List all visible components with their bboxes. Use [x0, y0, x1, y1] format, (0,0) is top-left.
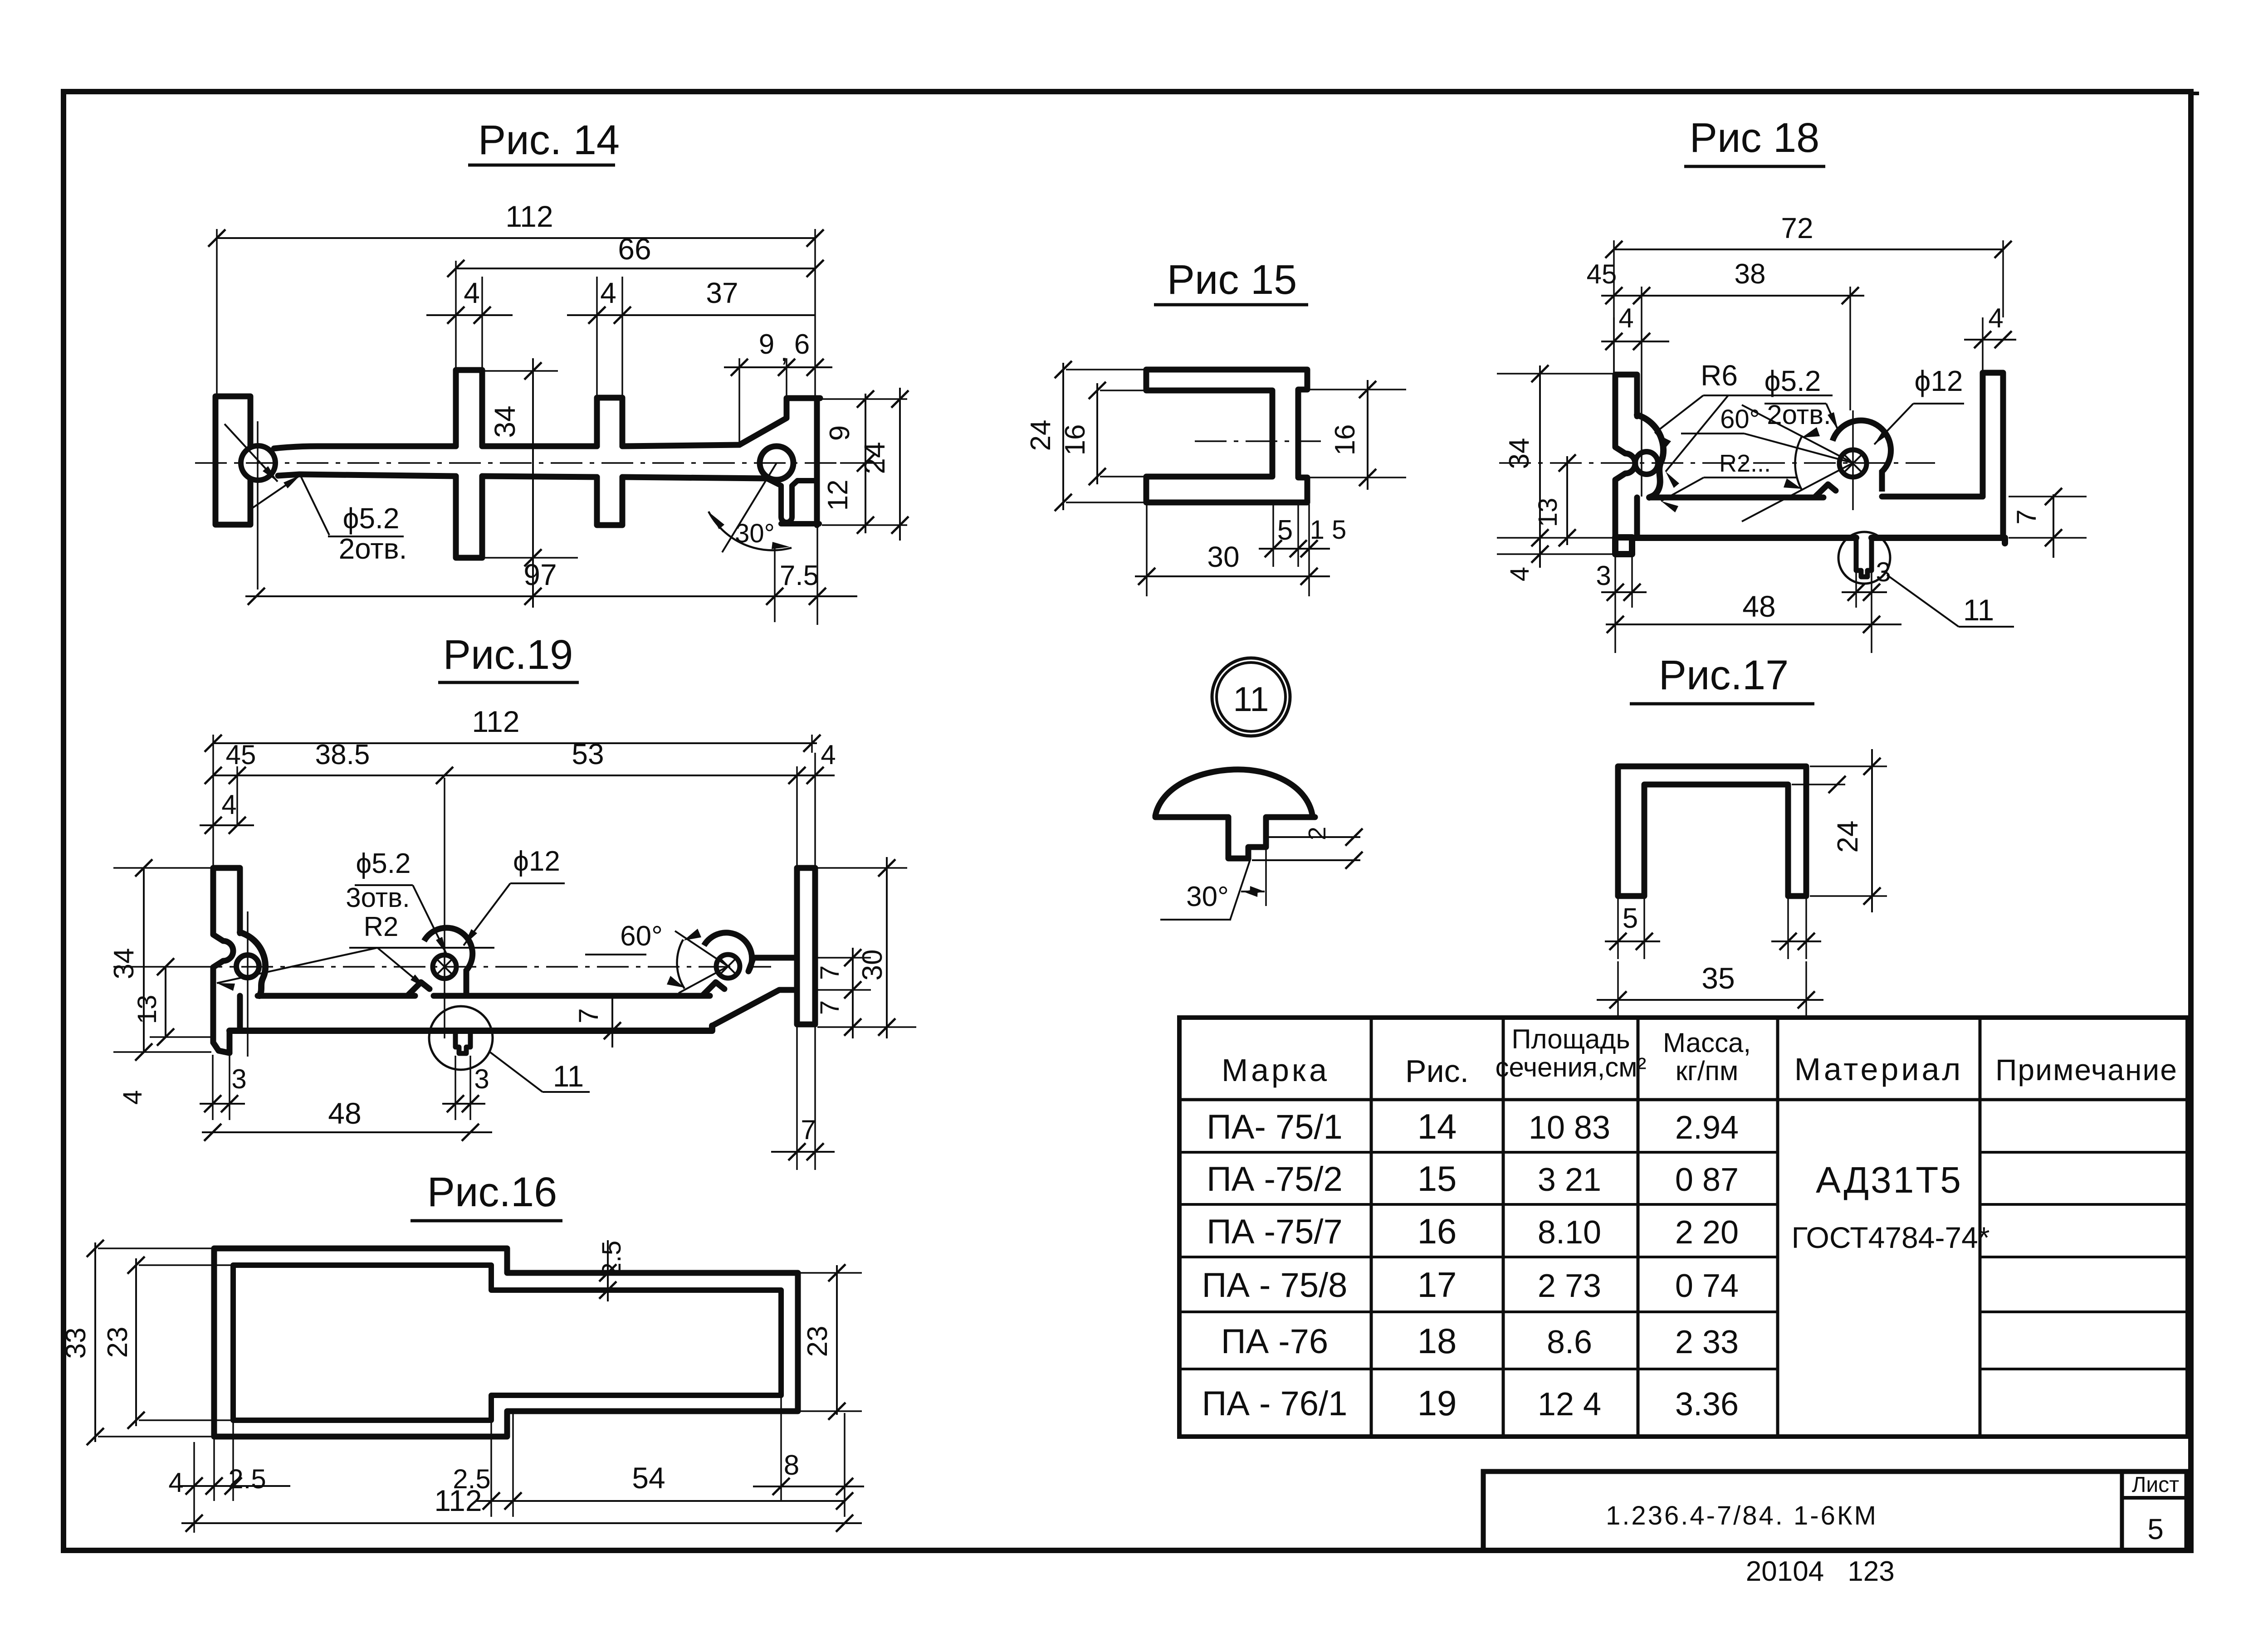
svg-text:54: 54 — [632, 1461, 665, 1495]
Рис.14 dim 34 — [480, 358, 578, 608]
Рис.18 label φ5.2 2отв — [1765, 365, 1838, 430]
Рис.18 label 11 leader — [1887, 575, 2014, 627]
svg-text:38.5: 38.5 — [315, 739, 370, 770]
svg-text:5: 5 — [1623, 903, 1638, 934]
Рис.14 fin 2 — [597, 398, 622, 525]
Рис.19 label φ12 — [464, 846, 565, 945]
Рис.18 circle cross — [1843, 453, 1863, 474]
svg-text:38: 38 — [1735, 258, 1766, 290]
Рис.14 dim 9 and 12 right — [822, 390, 907, 534]
svg-text:23: 23 — [102, 1327, 133, 1358]
svg-text:ϕ5.2: ϕ5.2 — [356, 848, 411, 879]
Рис.18 dim 48 — [1606, 590, 1901, 653]
svg-text:20104: 20104 — [1746, 1556, 1824, 1587]
svg-text:3: 3 — [1876, 557, 1891, 587]
Рис.18 label R2 — [1661, 450, 1796, 512]
Рис.18 centerline horizontal — [1499, 462, 1935, 464]
title Рис.17 — [1630, 652, 1814, 704]
Рис.17 dim 24 — [1792, 749, 1887, 912]
svg-text:3: 3 — [231, 1064, 246, 1094]
Рис.18 hook R6 — [1637, 415, 1663, 497]
Рис.17 profile U channel — [1618, 766, 1806, 896]
svg-text:7: 7 — [815, 1000, 845, 1015]
Рис.16 dim 4 and 2.5 bottom left — [168, 1422, 290, 1533]
svg-text:ГОСТ4784-74*: ГОСТ4784-74* — [1791, 1221, 1989, 1254]
svg-text:13: 13 — [132, 995, 162, 1024]
svg-text:13: 13 — [1533, 498, 1563, 527]
svg-text:10 83: 10 83 — [1529, 1110, 1610, 1146]
svg-text:2: 2 — [1304, 827, 1331, 840]
detail 11 mushroom stem — [1228, 817, 1266, 858]
Рис.14 dim 112 — [208, 200, 824, 397]
Рис.14 dim 24 right — [858, 388, 909, 541]
svg-text:35: 35 — [1701, 961, 1735, 995]
Рис.17 dim 5 — [1605, 898, 1660, 959]
svg-text:R2: R2 — [364, 911, 399, 942]
Рис.14 fin 1 — [456, 370, 482, 558]
stamp 20104 123 — [1746, 1556, 1895, 1587]
Рис.18 hook circle — [1635, 452, 1658, 474]
Рис.14 dim 4 fin1 — [426, 277, 513, 370]
Рис.18 dim 3 mid — [1842, 557, 1891, 608]
Рис.18 label φ12 — [1874, 365, 1964, 444]
Рис.19 shelf V notch 1 — [407, 982, 430, 996]
svg-text:15: 15 — [1417, 1159, 1457, 1199]
svg-text:11: 11 — [1963, 593, 1994, 627]
Рис.14 dim 66 — [447, 232, 824, 370]
Рис.18 T-slot — [1856, 538, 1872, 577]
Рис.19 left circle centerline vertical — [247, 911, 249, 1057]
Рис.15 profile — [1146, 370, 1307, 502]
table row ПА -75/7 — [1207, 1211, 1739, 1251]
Рис.19 shelf V notch 2 — [702, 982, 724, 996]
Рис.15 dim 30 — [1135, 504, 1330, 596]
Рис.15 centerline — [1195, 440, 1321, 442]
Рис.18 shelf — [1650, 497, 1983, 497]
svg-text:45: 45 — [1587, 259, 1617, 289]
title Рис.14 — [468, 117, 620, 165]
svg-text:8: 8 — [784, 1450, 799, 1481]
svg-text:4: 4 — [221, 789, 236, 820]
Рис.15 dim 5 and 1.5 — [1259, 504, 1346, 567]
svg-text:2 33: 2 33 — [1675, 1324, 1739, 1360]
Рис.14 bottom dim 97 and 7.5 — [245, 526, 857, 625]
svg-text:2.94: 2.94 — [1675, 1110, 1739, 1146]
Рис.19 bottom web left foot — [213, 1032, 230, 1053]
title block sheet 5 — [2147, 1513, 2164, 1545]
svg-text:37: 37 — [706, 277, 738, 309]
Рис.19 dim 4 left — [200, 789, 254, 868]
svg-text:2отв.: 2отв. — [339, 532, 407, 565]
svg-text:19: 19 — [1417, 1383, 1457, 1423]
Рис.19 label φ5.2 3отв R2 — [217, 848, 494, 991]
svg-text:ϕ12: ϕ12 — [513, 846, 560, 877]
svg-text:3: 3 — [474, 1064, 489, 1094]
Рис.19 dim 34 13 4 left side — [108, 859, 227, 1105]
svg-text:7.5: 7.5 — [780, 560, 819, 591]
svg-text:ПА -76: ПА -76 — [1221, 1322, 1328, 1361]
Рис.18 angle 60 arc — [1742, 405, 1853, 521]
svg-text:ПА -75/2: ПА -75/2 — [1207, 1160, 1343, 1199]
Рис.19 T-slot — [455, 1031, 470, 1053]
detail 11 dim 2 — [1252, 827, 1363, 869]
svg-text:2.5: 2.5 — [228, 1464, 266, 1494]
svg-text:ПА -75/7: ПА -75/7 — [1207, 1213, 1343, 1251]
Рис.19 circle right cross — [719, 957, 737, 975]
Рис.18 dim 45 38 — [1587, 258, 1864, 497]
Рис.14 leader arrow to left hole — [225, 424, 278, 482]
table header Рис. — [1405, 1053, 1469, 1089]
table header Масса — [1663, 1028, 1751, 1086]
svg-text:2отв.: 2отв. — [1767, 400, 1831, 430]
Рис.19 circle φ12 mid — [424, 928, 473, 995]
Рис.18 dim 4 right — [1964, 303, 2016, 373]
svg-text:7: 7 — [2011, 509, 2042, 524]
svg-text:4: 4 — [464, 277, 480, 309]
title block box — [1483, 1471, 2187, 1550]
svg-text:Рис 15: Рис 15 — [1167, 257, 1297, 303]
svg-text:2 73: 2 73 — [1538, 1268, 1601, 1304]
svg-text:60°: 60° — [1720, 404, 1760, 434]
detail 11 angle 30 marking — [1160, 847, 1266, 920]
Рис.17 dim 35 — [1597, 961, 1823, 1018]
Рис.18 dim 4 left — [1601, 303, 1669, 375]
svg-text:53: 53 — [572, 738, 604, 770]
svg-text:16: 16 — [1417, 1211, 1457, 1251]
svg-text:66: 66 — [618, 232, 651, 266]
svg-text:34: 34 — [1504, 438, 1535, 469]
svg-text:Марка: Марка — [1222, 1052, 1330, 1088]
Рис.19 slot balloon 11 — [429, 1006, 493, 1070]
table material АД31Т5 — [1816, 1160, 1963, 1201]
svg-text:24: 24 — [1831, 820, 1864, 853]
Рис.14 hole φ5.2 left — [241, 446, 275, 480]
Рис.19 dim 7 7 right — [815, 948, 916, 1038]
Рис.18 left flange — [1615, 375, 1637, 537]
svg-text:33: 33 — [60, 1328, 92, 1359]
svg-text:ПА - 75/8: ПА - 75/8 — [1202, 1266, 1348, 1305]
svg-text:9: 9 — [759, 329, 774, 360]
Рис.16 outer outline — [214, 1248, 798, 1437]
Рис.17 right leg ticks — [1771, 898, 1821, 959]
svg-text:Рис.17: Рис.17 — [1659, 652, 1789, 698]
svg-text:16: 16 — [1060, 424, 1091, 456]
svg-text:5: 5 — [2147, 1513, 2164, 1545]
table row ПА - 75/8 — [1202, 1265, 1739, 1305]
svg-text:кг/пм: кг/пм — [1676, 1056, 1739, 1086]
Рис.19 dim 112 — [205, 705, 821, 868]
svg-text:14: 14 — [1417, 1106, 1457, 1146]
svg-text:4: 4 — [1618, 303, 1633, 333]
Рис.19 bottom web — [230, 1026, 712, 1031]
Рис.14 web — [274, 445, 767, 478]
svg-text:4: 4 — [821, 740, 836, 770]
title Рис.16 — [411, 1169, 562, 1221]
svg-text:18: 18 — [1417, 1321, 1457, 1361]
svg-text:30°: 30° — [1186, 881, 1229, 912]
svg-text:4: 4 — [118, 1090, 147, 1105]
Рис.14 right flange — [739, 398, 820, 525]
table row ПА- 75/1 — [1207, 1106, 1739, 1146]
Рис.19 left hook circle — [236, 955, 259, 978]
Рис.19 angle 60 marking — [585, 921, 728, 993]
table header Марка — [1222, 1052, 1330, 1088]
svg-text:97: 97 — [523, 558, 557, 591]
svg-text:3: 3 — [1596, 560, 1611, 591]
svg-text:ϕ12: ϕ12 — [1914, 365, 1963, 397]
table grid — [1179, 1018, 2188, 1437]
Рис.16 dim 112 bottom — [181, 1484, 862, 1532]
svg-text:8.6: 8.6 — [1547, 1324, 1592, 1360]
Рис.19 right flange — [712, 868, 815, 1026]
svg-text:4: 4 — [168, 1467, 183, 1498]
Рис.18 shelf V notch — [1814, 484, 1836, 497]
table row ПА -75/2 — [1207, 1159, 1739, 1199]
svg-text:1 5: 1 5 — [1310, 515, 1347, 545]
Рис.14 centerline — [195, 462, 840, 464]
Рис.14 label φ5.2 2отв. — [249, 475, 407, 565]
Рис.18 dim 34 13 4 left — [1497, 365, 1614, 581]
svg-text:Материал: Материал — [1794, 1052, 1964, 1087]
svg-text:7: 7 — [815, 965, 845, 980]
svg-text:2.5: 2.5 — [597, 1241, 626, 1277]
svg-text:АД31Т5: АД31Т5 — [1816, 1160, 1963, 1201]
table header Площадь сечения — [1495, 1024, 1646, 1082]
svg-text:R6: R6 — [1701, 359, 1738, 392]
svg-text:4: 4 — [1988, 303, 2003, 333]
svg-text:3 21: 3 21 — [1538, 1162, 1601, 1198]
Рис.18 label R6 — [1655, 359, 1833, 488]
svg-text:30: 30 — [1207, 541, 1239, 573]
svg-text:8.10: 8.10 — [1538, 1214, 1601, 1251]
svg-text:Рис.: Рис. — [1405, 1053, 1469, 1089]
Рис.14 keyhole slot right — [767, 478, 819, 524]
Рис.19 left hook — [240, 932, 265, 996]
svg-text:7: 7 — [573, 1008, 604, 1023]
title block Лист — [2132, 1473, 2179, 1497]
svg-text:3.36: 3.36 — [1675, 1386, 1739, 1423]
title block designation — [1606, 1501, 1878, 1530]
table header Примечание — [1995, 1053, 2178, 1086]
Рис.14 hole centerline vertical — [257, 421, 259, 590]
Рис.19 shelf right — [748, 958, 797, 971]
Рис.19 dim 30 right — [817, 857, 907, 1038]
svg-text:9: 9 — [824, 425, 855, 441]
svg-text:24: 24 — [858, 442, 891, 474]
svg-text:112: 112 — [472, 705, 519, 738]
Рис.19 dim 3 mid — [442, 1056, 489, 1120]
svg-text:Лист: Лист — [2132, 1473, 2179, 1497]
svg-text:12 4: 12 4 — [1538, 1386, 1601, 1423]
Рис.19 circle mid cross — [435, 958, 454, 976]
svg-text:3отв.: 3отв. — [346, 882, 410, 913]
svg-text:Примечание: Примечание — [1995, 1053, 2178, 1086]
Рис.15 dim 24 — [1025, 361, 1146, 511]
Рис.16 dim 2.5 top — [510, 1240, 662, 1301]
Рис.16 dim 23 left — [102, 1257, 232, 1429]
title Рис.19 — [438, 632, 579, 682]
Рис.14 dim 37 — [622, 277, 815, 315]
svg-text:4: 4 — [600, 277, 616, 309]
svg-text:2 20: 2 20 — [1675, 1214, 1739, 1251]
detail 11 balloon text — [1233, 680, 1269, 719]
Рис.16 inner outline — [233, 1265, 781, 1420]
svg-text:Площадь: Площадь — [1511, 1024, 1630, 1054]
Рис.19 mid circle centerline vertical — [444, 778, 445, 1038]
Рис.19 centerline — [191, 966, 771, 968]
svg-text:48: 48 — [1742, 590, 1775, 623]
Рис.19 dim 7 bottom right — [771, 1027, 835, 1170]
Рис.19 shelf left — [258, 993, 466, 999]
svg-text:ϕ5.2: ϕ5.2 — [1765, 365, 1821, 397]
svg-text:4: 4 — [1505, 567, 1535, 581]
svg-text:112: 112 — [505, 200, 553, 233]
Рис.16 dim 8 — [753, 1398, 864, 1517]
svg-text:112: 112 — [434, 1484, 482, 1517]
svg-text:5: 5 — [1277, 515, 1293, 546]
svg-text:6: 6 — [794, 329, 810, 360]
svg-text:1.236.4-7/84. 1-6КМ: 1.236.4-7/84. 1-6КМ — [1606, 1501, 1878, 1530]
Рис.18 centerline vertical — [1852, 410, 1854, 510]
Рис.16 dim 2.5 and 54 bottom — [453, 1413, 853, 1517]
svg-text:сечения,см²: сечения,см² — [1495, 1052, 1646, 1082]
Рис.19 circle right — [704, 933, 752, 978]
table material ГОСТ4784-74* — [1791, 1221, 1989, 1254]
svg-text:Масса,: Масса, — [1663, 1028, 1751, 1058]
Рис.15 dim 16 left — [1060, 382, 1146, 485]
svg-text:24: 24 — [1025, 420, 1056, 451]
svg-text:23: 23 — [802, 1326, 833, 1357]
svg-text:ϕ5.2: ϕ5.2 — [343, 502, 400, 535]
svg-text:12: 12 — [822, 480, 854, 511]
Рис.14 left flange — [215, 396, 250, 525]
svg-text:11: 11 — [553, 1059, 584, 1093]
svg-text:ПА - 76/1: ПА - 76/1 — [1202, 1384, 1348, 1423]
svg-text:60°: 60° — [620, 921, 663, 952]
svg-text:7: 7 — [801, 1115, 816, 1145]
title Рис 15 — [1154, 257, 1308, 305]
detail 11 mushroom cap — [1155, 770, 1315, 817]
Рис.19 dim 45 38.5 53 4 — [205, 738, 836, 868]
svg-text:Рис 18: Рис 18 — [1690, 115, 1820, 161]
Рис.19 dim 7 diagonal area — [573, 998, 621, 1047]
svg-text:30: 30 — [857, 950, 888, 981]
Рис.18 dim 7 right — [2005, 488, 2087, 558]
Рис.14 dim 9 and 6 top — [724, 329, 832, 443]
Рис.18 label 60 — [1681, 404, 1853, 463]
Рис.18 circle φ12 — [1833, 420, 1891, 492]
svg-text:ПА- 75/1: ПА- 75/1 — [1207, 1108, 1343, 1146]
svg-text:Рис.16: Рис.16 — [427, 1169, 557, 1215]
svg-text:Рис. 14: Рис. 14 — [478, 117, 620, 163]
Рис.19 dim 3 left — [200, 1055, 247, 1120]
Рис.18 dim 72 — [1605, 212, 2012, 373]
Рис.18 dim 3 left — [1596, 556, 1647, 653]
svg-text:11: 11 — [1233, 680, 1269, 719]
Рис.19 shelf mid — [466, 993, 710, 999]
svg-text:0 74: 0 74 — [1675, 1268, 1739, 1304]
svg-text:72: 72 — [1781, 212, 1813, 244]
svg-text:R2...: R2... — [1719, 450, 1771, 477]
table header Материал — [1794, 1052, 1964, 1087]
svg-text:17: 17 — [1417, 1265, 1457, 1305]
Рис.18 right flange — [1983, 373, 2003, 536]
Рис.14 angle 30 marking — [709, 463, 792, 552]
Рис.19 dim 48 — [202, 1096, 492, 1141]
Рис.18 bottom web — [1615, 537, 2005, 554]
svg-text:123: 123 — [1848, 1556, 1894, 1587]
svg-text:34: 34 — [489, 405, 521, 438]
Рис.15 dim 16 right — [1308, 380, 1406, 490]
Рис.16 dim 33 — [60, 1240, 213, 1445]
Рис.19 left flange — [213, 868, 240, 1053]
Рис.18 slot balloon 11 — [1838, 532, 1890, 584]
svg-text:45: 45 — [226, 740, 256, 770]
svg-text:34: 34 — [108, 948, 140, 979]
Рис.19 label 11 leader — [490, 1052, 590, 1093]
svg-text:16: 16 — [1330, 424, 1361, 456]
title Рис 18 — [1684, 115, 1825, 166]
Рис.14 circle φ12 right — [760, 446, 793, 480]
Рис.16 dim 23 right — [801, 1264, 862, 1420]
table row ПА - 76/1 — [1202, 1383, 1739, 1423]
svg-text:Рис.19: Рис.19 — [443, 632, 573, 678]
table row ПА -76 — [1221, 1321, 1739, 1361]
svg-text:0 87: 0 87 — [1675, 1162, 1739, 1198]
Рис.14 dim 4 fin2 — [567, 277, 631, 398]
detail 11 balloon circle — [1212, 658, 1290, 736]
svg-text:48: 48 — [328, 1096, 361, 1130]
